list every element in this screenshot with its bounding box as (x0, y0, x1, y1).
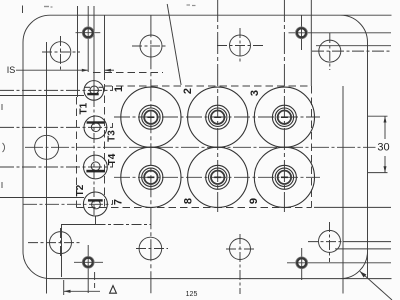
bracket tick T1 (112, 86, 114, 90)
dashed pocket left x104.5 (104, 73, 106, 208)
hex screw top-left (82, 27, 94, 39)
centerline bolt BR horizontal (308, 241, 343, 243)
dashed pocket top y86 (105, 85, 312, 87)
hex screw bottom-left (82, 256, 94, 268)
centerline row2 (114, 176, 320, 178)
wire y241.6 right (343, 241, 391, 243)
centerline col1 (150, 15, 152, 294)
wire vertical x343 (342, 86, 344, 294)
svg-text:T3: T3 (107, 130, 118, 142)
centerline T3 (0, 126, 113, 128)
plug T1 (84, 81, 104, 101)
wire vertical x77.5 (77, 6, 79, 97)
T plug circles (83, 81, 107, 216)
cavity circle 7 (col1 row2) (121, 147, 181, 207)
left edge cut mark 1 (1, 104, 3, 110)
step line below T2 (62, 216, 96, 277)
plug T3 (84, 116, 107, 139)
centerline step y224.5 (96, 224, 152, 226)
plug T4 (84, 155, 108, 179)
hex left bottom centerline (74, 261, 103, 263)
svg-text:30: 30 (377, 142, 389, 154)
wire y248.9 right (335, 248, 391, 250)
centerline bolt B3 horizontal (226, 248, 256, 250)
wire vertical x46.5 (46, 42, 48, 294)
cavity circle 2 (col2 row1) (188, 87, 248, 147)
svg-text:9: 9 (248, 198, 260, 204)
centerline col3 (283, 0, 285, 212)
bracket tick T2 (112, 200, 114, 204)
svg-text:125: 125 (186, 291, 198, 298)
tick top left edge (22, 6, 24, 14)
svg-text:IS: IS (7, 65, 16, 75)
dim line right part y70.2 (105, 69, 115, 71)
tiny faint text top-left (44, 6, 49, 8)
cavity circle 3 (col3 row1) (254, 87, 314, 147)
centerline bolt T3col vertical (239, 28, 241, 64)
wire vertical x94.6 top (93, 6, 95, 97)
dim bottom arrow left (64, 290, 71, 293)
dim bottom line (64, 290, 100, 292)
centerline bolt TR vertical (329, 33, 331, 70)
dim 30 extension top (368, 115, 388, 117)
centerline col2 (217, 0, 219, 212)
hex screw top-right (296, 27, 308, 39)
hex left top centerline (76, 32, 101, 34)
svg-text:T4: T4 (107, 153, 118, 165)
centerline bolt TL horizontal (42, 51, 80, 53)
bolt hole B2 (139, 237, 162, 260)
svg-text:2: 2 (182, 88, 194, 94)
bracket tick T3 (112, 123, 114, 127)
svg-text:8: 8 (183, 198, 195, 204)
bolt hole T2col (140, 35, 162, 57)
dashed pocket top y72.5 (93, 72, 163, 74)
leader arrowhead corner (360, 271, 367, 277)
cavity grid circles (121, 87, 315, 207)
left edge cut mark 2 (1, 182, 3, 188)
wire vertical top hex right (301, 16, 303, 51)
centerline bolt BL horizontal (28, 242, 80, 244)
tiny faint text top-mid (187, 4, 191, 6)
bolt hole T3col (230, 35, 251, 56)
svg-text:7: 7 (113, 199, 125, 205)
label delta (triangle symbol) (110, 286, 117, 294)
dashed pocket bottom y207.5 (77, 207, 312, 209)
wire y95.5 left (0, 95, 84, 97)
dim 30 arrow up (384, 116, 387, 122)
cavity circle 8 (col2 row2) (188, 147, 248, 207)
dim 30 extension bottom (368, 172, 388, 174)
wire y45.7 right (316, 45, 391, 47)
wire vertical x88 bottom (87, 245, 89, 293)
centerline bolt BR vertical (329, 222, 331, 262)
centerline T2 (23, 203, 113, 205)
cavity circle 9 (col3 row2) (254, 147, 314, 207)
centerline bolt B3 vertical (239, 234, 241, 294)
plug T2 (83, 192, 107, 216)
bolt hole BL (50, 232, 72, 254)
wire vertical bottom hex right (301, 248, 303, 280)
leader to label 2 (167, 4, 181, 85)
wire vertical x94.6 bottom (94, 272, 96, 288)
svg-text:T2: T2 (75, 184, 86, 196)
centerline row1 (114, 116, 320, 118)
dim 30 line (384, 116, 386, 139)
IS leader line (16, 69, 88, 71)
bracket tick T4 (112, 163, 114, 167)
hex right top centerline long (289, 32, 392, 34)
dim small arrow right at x88 (82, 69, 88, 72)
wire vertical x311.3 (310, 0, 312, 86)
centerline bolt TL vertical (60, 36, 62, 70)
centerline bolt B2 horizontal (136, 248, 168, 250)
left edge cut arc (3, 143, 5, 152)
centerline T1 (0, 89, 113, 91)
centerline T column (93, 97, 95, 216)
bolt hole mid-left (35, 135, 59, 159)
wire vertical x88 top (87, 6, 89, 72)
hex right bottom centerline (287, 262, 391, 264)
hex screws (82, 27, 308, 269)
bolt hole BR (319, 230, 341, 252)
svg-text:1: 1 (113, 86, 125, 92)
dim bottom extension vertical (63, 280, 65, 295)
dashed pocket left x76.5 (76, 97, 78, 208)
centerline bolt BL vertical (60, 228, 62, 258)
leader corner radius bottom-right (360, 271, 392, 300)
bolt hole TL (50, 42, 71, 63)
centerline mid plate y147.3 (25, 146, 376, 148)
bolt hole TR (319, 40, 341, 62)
centerline T4 (0, 166, 113, 168)
wire y197.5 left (0, 197, 84, 199)
centerline bolt T2col horizontal (132, 45, 168, 47)
dashed pocket right x311.5 (311, 86, 313, 208)
wire y207.4 right (314, 206, 391, 208)
centerline bolt TR horizontal (312, 50, 391, 52)
cavity circle 1 (col1 row1) (121, 87, 181, 147)
dim 30 arrow down (384, 166, 387, 172)
svg-text:T1: T1 (79, 102, 90, 114)
hex screw bottom-right (296, 257, 308, 269)
centerline bolt T3col horizontal (217, 45, 265, 47)
dim small arrow left at x104.5 (105, 69, 111, 72)
svg-text:3: 3 (249, 90, 261, 96)
bolt hole B3 (230, 239, 251, 260)
wire vertical x104.5 (104, 15, 106, 72)
